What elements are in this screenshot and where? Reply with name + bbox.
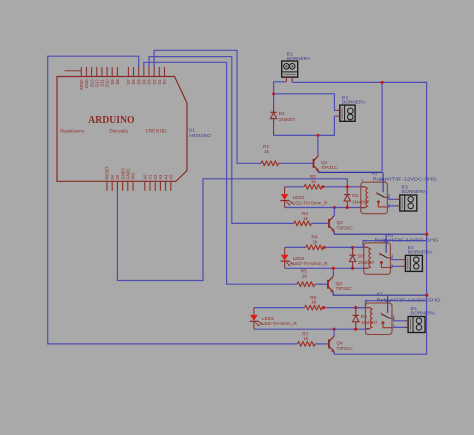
svg-text:3: 3	[380, 178, 382, 182]
svg-text:3: 3	[383, 239, 385, 243]
wire R2 to diode D2 and coil	[322, 186, 365, 188]
relay K3 common contact	[382, 321, 385, 324]
pin 2 of B5	[405, 326, 408, 328]
svg-text:3: 3	[385, 299, 387, 303]
svg-text:TIP31C: TIP31C	[336, 346, 353, 352]
wire R1 to Q1 base	[279, 162, 313, 164]
svg-text:Q3: Q3	[336, 281, 343, 287]
svg-text:ARDUINO: ARDUINO	[88, 114, 134, 126]
wire D3 to Q2 base	[149, 57, 294, 224]
svg-text:UNO R1R2: UNO R1R2	[146, 129, 168, 134]
diode D3 1N4007	[352, 247, 354, 255]
resistor R5 value 1k	[297, 282, 315, 287]
svg-text:TIP31C: TIP31C	[337, 225, 354, 231]
svg-text:D1: D1	[279, 111, 285, 117]
svg-text:Q2: Q2	[337, 220, 344, 226]
svg-text:D0: D0	[162, 79, 167, 85]
wire Q4 collector	[333, 329, 335, 336]
svg-text:K3: K3	[377, 292, 383, 297]
stage 1 top line (LED anode / resistor)	[285, 186, 305, 188]
svg-text:D8: D8	[115, 79, 120, 85]
wire Q3 emitter	[333, 292, 427, 295]
relay K3 coil	[365, 308, 372, 329]
svg-text:Q4: Q4	[336, 341, 343, 347]
Arduino top pins	[81, 67, 164, 77]
node dot on stage 1 top line	[321, 185, 324, 188]
stage 3 bottom line (LED cathode / diode anode / coil)	[254, 328, 370, 330]
wire relay K3 common to B5 pin2	[392, 326, 405, 328]
node Q3 emitter rail junction	[425, 294, 428, 297]
wire D2 to Q1 base	[154, 50, 261, 163]
stage 2 bottom line (LED cathode / diode anode / coil)	[285, 267, 368, 269]
svg-text:Diecimila: Diecimila	[109, 129, 128, 134]
relay K1 common contact	[377, 200, 380, 203]
wire relay K2 common to B4 pin2	[390, 266, 402, 267]
wire Q3 collector	[332, 268, 334, 276]
wire Q1 collector	[317, 135, 319, 155]
svg-text:TIP31C: TIP31C	[321, 165, 338, 171]
wire D4 to Q3 base	[144, 62, 297, 284]
svg-text:BORNERA: BORNERA	[342, 100, 367, 105]
relay K1 switch blade	[376, 192, 379, 196]
wire Q1 emitter	[319, 171, 382, 172]
svg-text:TIP31C: TIP31C	[336, 286, 353, 292]
wire R4 to diode D3 and coil	[323, 246, 368, 248]
node dot on stage 2 top line	[322, 246, 325, 249]
wire Q2 collector	[333, 208, 335, 216]
pin 1 of B3	[397, 198, 400, 200]
relay K3 switch blade	[381, 312, 384, 316]
wire stage 3 coil feed jog to rail	[356, 301, 427, 308]
svg-text:LED-TH-5mm_R: LED-TH-5mm_R	[293, 261, 329, 266]
resistor R2 value 1k	[304, 184, 322, 189]
svg-text:1k: 1k	[312, 239, 318, 245]
svg-text:1k: 1k	[303, 336, 309, 342]
wire B1 pin2 +12V rail	[292, 82, 426, 354]
svg-text:1: 1	[361, 178, 363, 182]
Arduino U1 body	[57, 77, 187, 182]
node diode D4 bottom junction	[354, 328, 357, 331]
svg-text:1k: 1k	[264, 149, 270, 155]
node Q2 emitter rail junction	[425, 233, 428, 236]
svg-text:LED-TH-5mm_R: LED-TH-5mm_R	[262, 321, 298, 326]
pin 1 of B4	[402, 259, 405, 261]
relay K3 switch common pin	[387, 295, 389, 313]
wire Q2 emitter	[334, 231, 427, 234]
Arduino bottom pins	[107, 181, 171, 191]
Arduino bottom pin labels	[105, 165, 174, 179]
wire D1 anode to B2 pin2 / Q1 collector	[274, 116, 337, 135]
node collector junction on stage 1 bottom line	[333, 206, 336, 209]
LED LED3 LED-TH-5mm_R	[253, 308, 255, 315]
pin 2 of B3	[397, 205, 400, 207]
svg-text:A5: A5	[169, 174, 174, 180]
node diode D4 top junction	[354, 306, 357, 309]
wire stub at AREF	[65, 70, 82, 72]
node collector junction on stage 3 bottom line	[333, 328, 336, 331]
svg-text:1N4007: 1N4007	[279, 117, 296, 123]
wire R7 to Q4 base	[315, 343, 328, 345]
relay K2 switch common pin	[385, 234, 387, 253]
svg-text:1N4007: 1N4007	[361, 320, 378, 326]
wire B1 pin1 to D1	[274, 82, 287, 105]
svg-text:VIN: VIN	[131, 173, 136, 180]
LED LED1 LED-TH-5mm_R	[284, 187, 286, 194]
node diode D2 top junction	[346, 185, 349, 188]
Arduino top pin labels	[79, 79, 167, 91]
resistor R7 value 1k	[298, 342, 316, 347]
svg-text:Q1: Q1	[321, 160, 328, 166]
pin 1 of B2	[337, 109, 340, 111]
pin 2 of B4	[402, 265, 405, 267]
svg-text:K1: K1	[372, 171, 378, 176]
wire R6 to diode D4 and coil	[322, 307, 369, 309]
svg-text:1k: 1k	[311, 179, 317, 185]
svg-text:1k: 1k	[302, 273, 308, 279]
wire rail branch to Q1 emitter	[381, 82, 383, 172]
svg-text:BORNERA: BORNERA	[408, 250, 434, 255]
resistor R1 value 1k	[261, 161, 279, 166]
node collector junction on stage 2 bottom line	[332, 267, 335, 270]
wire stage 2 coil feed jog to rail	[353, 241, 427, 248]
transistor Q4 TIP31C	[328, 339, 330, 348]
svg-text:1N4007: 1N4007	[358, 260, 375, 266]
transistor Q3 TIP31C	[327, 280, 329, 289]
diode D4 1N4007	[355, 308, 357, 316]
pin 2 of B1	[291, 77, 293, 82]
svg-text:LED-TH-5mm_R: LED-TH-5mm_R	[293, 200, 329, 205]
relay K2 NO contact	[387, 257, 390, 259]
stage 2 top line (LED anode / resistor)	[285, 246, 306, 248]
resistor R6 value 1k	[305, 305, 323, 310]
diode D1 1N4007	[273, 105, 275, 113]
node dot on stage 3 top line	[322, 306, 325, 309]
svg-text:D3: D3	[358, 254, 364, 260]
wire relay K2 NO to B4 pin1	[390, 258, 402, 260]
svg-text:BORNERA: BORNERA	[402, 189, 428, 194]
node Q1 collector junction	[316, 134, 319, 137]
svg-text:BORNERA: BORNERA	[411, 311, 437, 316]
wire junction to B2 pin1	[274, 94, 337, 111]
relay K1 coil	[361, 187, 368, 208]
wire relay K1 NO to B3 pin1	[387, 197, 396, 199]
svg-text:1k: 1k	[311, 300, 317, 306]
relay K2 common contact	[380, 261, 383, 264]
wire relay K3 NO to B5 pin1	[392, 318, 405, 321]
svg-text:RelayHT3F-12VDC-SHG: RelayHT3F-12VDC-SHG	[373, 176, 438, 181]
relay K2 coil	[364, 247, 371, 268]
wire relay K1 common to B3 pin2	[387, 206, 396, 207]
wire Q4 emitter	[333, 352, 335, 354]
svg-text:1: 1	[366, 299, 368, 303]
diode D2 1N4007	[346, 187, 348, 195]
svg-text:Duemilanove: Duemilanove	[60, 129, 84, 134]
stage 3 top line (LED anode / resistor)	[254, 307, 305, 309]
svg-text:1k: 1k	[303, 216, 309, 222]
relay K1 NO contact	[384, 196, 387, 198]
wire D5 to left rail to Q4 base	[48, 56, 298, 344]
relay K1 switch common pin	[382, 172, 384, 192]
LED LED2 LED-TH-5mm_R	[284, 247, 286, 254]
transistor Q1 TIP31C	[313, 159, 315, 168]
pin 1 of B1	[285, 77, 287, 82]
svg-text:ARDUINO: ARDUINO	[189, 133, 211, 139]
node diode D2 bottom junction	[346, 206, 349, 209]
node rail junction	[381, 81, 384, 84]
node diode D3 bottom junction	[351, 267, 354, 270]
pin 1 of B5	[405, 320, 408, 322]
relay K3 NO contact	[389, 317, 392, 319]
resistor R4 value 1k	[306, 245, 324, 250]
svg-text:D2: D2	[352, 193, 358, 199]
wire 3V pin to D2 top (common net)	[117, 179, 347, 281]
svg-text:D4: D4	[361, 314, 367, 320]
resistor R3 value 1k	[294, 221, 312, 226]
svg-text:1: 1	[364, 239, 366, 243]
transistor Q2 TIP31C	[328, 219, 330, 228]
stage 1 bottom line (LED cathode / diode anode / coil)	[285, 207, 365, 209]
node diode D3 top junction	[351, 246, 354, 249]
node B1/D1/B2 junction	[272, 92, 275, 95]
pin 2 of B2	[337, 115, 340, 117]
svg-text:U1: U1	[189, 128, 195, 134]
relay K2 switch blade	[379, 252, 382, 256]
